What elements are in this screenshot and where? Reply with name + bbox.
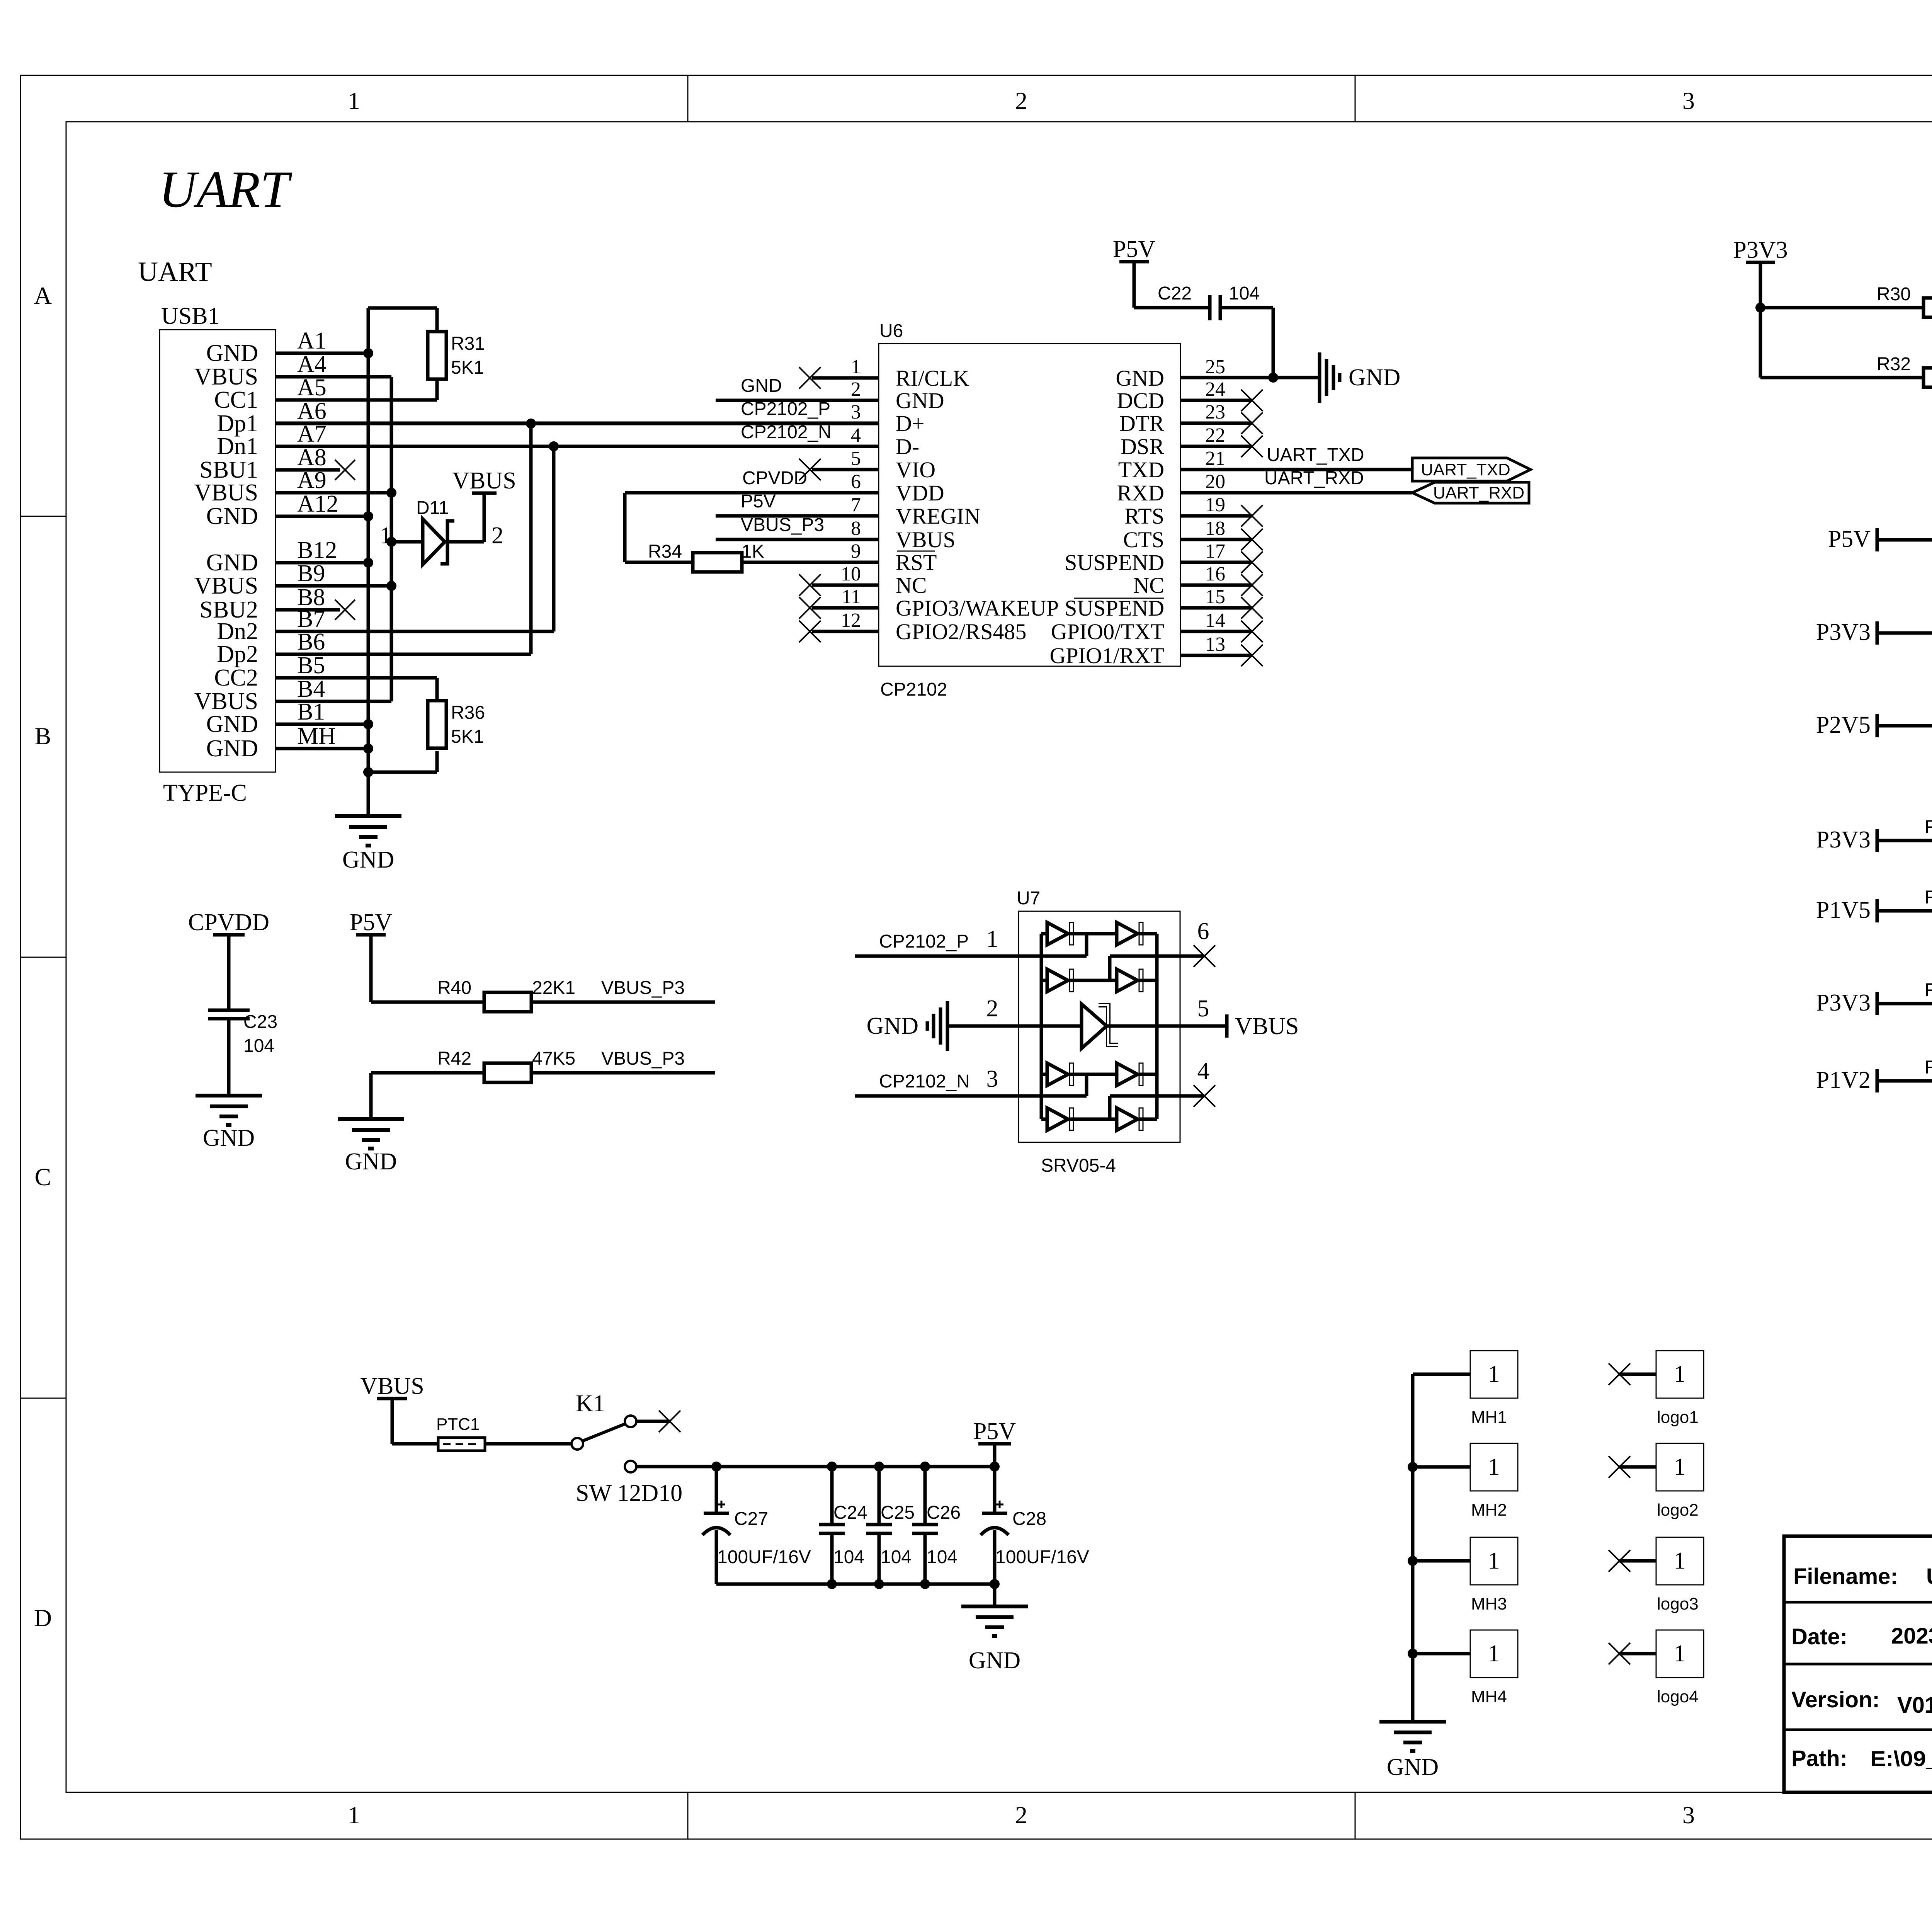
power terminal P5V (D12 row): [1828, 526, 1877, 552]
U6 pin 20 RXD: [1117, 471, 1225, 505]
USB1 pin A9 VBUS wire: [194, 467, 391, 506]
logo fiducial logo2: [1609, 1443, 1704, 1520]
svg-text:R34: R34: [648, 541, 682, 562]
U6 pin 23 DTR: [1119, 401, 1263, 436]
svg-text:100UF/16V: 100UF/16V: [717, 1547, 811, 1567]
IC U7 SRV05-4 body: [1017, 888, 1180, 1176]
resistor R37: [1877, 702, 1932, 735]
svg-text:NC: NC: [1133, 573, 1164, 598]
svg-text:GND: GND: [345, 1149, 397, 1175]
Dn1 junction dot: [549, 441, 559, 451]
capacitor C27: [702, 1467, 811, 1584]
svg-text:4: 4: [851, 424, 861, 446]
svg-text:UART: UART: [159, 161, 293, 218]
resistor R41: [1877, 980, 1932, 1013]
svg-text:1: 1: [1488, 1361, 1500, 1387]
svg-text:CP2102: CP2102: [880, 679, 947, 700]
U6 pin 2 GND: [851, 378, 944, 413]
svg-text:104: 104: [881, 1547, 912, 1567]
svg-text:1: 1: [1674, 1361, 1686, 1387]
capacitor C24: [819, 1467, 867, 1584]
svg-text:UART_RXD: UART_RXD: [1264, 468, 1364, 488]
svg-text:A4: A4: [297, 351, 327, 378]
svg-text:UART_RXD: UART_RXD: [1433, 483, 1524, 502]
USB1 pin A1 GND wire: [206, 328, 368, 366]
svg-text:GND: GND: [206, 340, 258, 366]
U6 pin 24 DCD: [1117, 378, 1263, 413]
svg-text:C: C: [35, 1163, 51, 1191]
power terminal P2V5 (D14 row): [1816, 712, 1877, 738]
svg-text:D11: D11: [416, 498, 449, 518]
ground symbol below R42: [338, 1073, 404, 1175]
svg-text:CC2: CC2: [214, 665, 258, 691]
svg-text:24: 24: [1205, 378, 1225, 400]
USB1 pin A6 Dp1 wire: [217, 398, 879, 437]
svg-text:GND: GND: [206, 735, 258, 762]
svg-text:U6: U6: [879, 321, 903, 341]
U7 pin 5 wire VBUS: [1107, 995, 1299, 1040]
svg-text:8: 8: [851, 517, 861, 539]
resistor R31: [428, 308, 485, 400]
svg-text:UART: UART: [138, 256, 212, 287]
resistor R39: [1877, 887, 1932, 921]
USB1 pin A7 Dn1 wire: [217, 421, 879, 459]
svg-text:Path:: Path:: [1791, 1746, 1847, 1771]
USB1 pin B8 SBU2 wire: [199, 584, 355, 623]
svg-text:P5V: P5V: [350, 909, 392, 936]
svg-text:A9: A9: [297, 467, 327, 493]
ground symbol below cap bank: [961, 1584, 1028, 1674]
svg-text:P3V3: P3V3: [1816, 827, 1871, 853]
svg-text:VBUS: VBUS: [194, 573, 258, 599]
svg-text:DTR: DTR: [1119, 411, 1164, 436]
zone row ticks: [20, 516, 1932, 1398]
IC U6 CP2102 body: [879, 321, 1180, 700]
U6 pin 5 VIO: [799, 448, 935, 482]
U6 pin 22 DSR: [1121, 424, 1263, 459]
power port P5V (cap bank): [973, 1418, 1016, 1467]
svg-text:GPIO0/TXT: GPIO0/TXT: [1051, 619, 1164, 644]
svg-text:UART_TXD: UART_TXD: [1421, 460, 1510, 479]
U6 pin 12 GPIO2/RS485: [799, 609, 1026, 644]
zone column ticks: [688, 75, 1932, 1839]
USB1 pin B7 Dn2 wire: [217, 606, 554, 645]
GND bus junction dots: [363, 348, 373, 777]
resistor R32: [1760, 354, 1932, 387]
svg-text:P3V3: P3V3: [1816, 619, 1871, 645]
power port VBUS (D11 cathode): [452, 468, 516, 542]
svg-text:3: 3: [1682, 87, 1695, 114]
svg-text:5K1: 5K1: [451, 357, 484, 378]
USB1 pin B9 VBUS wire: [194, 560, 391, 599]
svg-text:RI/CLK: RI/CLK: [896, 366, 969, 391]
USB1 pin A4 VBUS wire: [194, 351, 391, 390]
svg-text:SW 12D10: SW 12D10: [576, 1480, 682, 1506]
svg-text:CTS: CTS: [1123, 527, 1164, 552]
svg-text:GND: GND: [206, 503, 258, 529]
svg-text:VBUS: VBUS: [1235, 1013, 1299, 1040]
svg-text:R39: R39: [1925, 887, 1932, 908]
resistor R35: [1877, 609, 1932, 643]
svg-text:D-: D-: [896, 434, 919, 459]
svg-text:104: 104: [927, 1547, 957, 1567]
svg-text:logo4: logo4: [1657, 1687, 1699, 1706]
U7 internal right rail: [1155, 934, 1159, 1119]
U7 diode row C: [1041, 1063, 1157, 1086]
svg-text:GND: GND: [1116, 366, 1164, 391]
svg-text:CP2102_P: CP2102_P: [879, 931, 969, 952]
svg-text:CPVDD: CPVDD: [742, 468, 807, 488]
svg-text:1: 1: [1674, 1640, 1686, 1667]
svg-text:VBUS_P3: VBUS_P3: [601, 978, 685, 998]
svg-text:1: 1: [1674, 1548, 1686, 1574]
svg-text:P1V2: P1V2: [1816, 1067, 1871, 1093]
svg-text:V01: V01: [1897, 1693, 1932, 1718]
mounting hole MH4: [1413, 1630, 1518, 1706]
svg-text:GND: GND: [1349, 364, 1400, 391]
svg-text:P5V: P5V: [741, 491, 776, 512]
svg-text:GND: GND: [969, 1647, 1020, 1674]
U6 pin 18 CTS: [1123, 517, 1263, 552]
U6 pin 10 NC: [799, 563, 927, 598]
svg-text:VBUS: VBUS: [360, 1373, 424, 1399]
svg-text:13: 13: [1205, 633, 1225, 655]
svg-text:E:\09_my_project\PCB\05_ECP3\V: E:\09_my_project\PCB\05_ECP3\V02\ECP3_70…: [1870, 1746, 1932, 1771]
svg-text:C23: C23: [243, 1012, 277, 1032]
svg-text:B7: B7: [297, 606, 325, 632]
svg-text:1: 1: [851, 356, 861, 378]
ground symbol below MH bus: [1379, 1722, 1446, 1780]
svg-text:12: 12: [841, 609, 861, 631]
svg-text:R32: R32: [1877, 354, 1911, 374]
svg-text:SBU1: SBU1: [199, 457, 258, 483]
svg-text:GND: GND: [896, 388, 944, 413]
svg-text:5: 5: [1197, 995, 1209, 1022]
svg-text:21: 21: [1205, 448, 1225, 470]
power port CPVDD: [188, 909, 269, 1010]
fuse PTC1: [436, 1415, 485, 1451]
svg-text:16: 16: [1205, 563, 1225, 585]
U7 internal left rail: [1040, 934, 1043, 1119]
svg-text:2023/8/6: 2023/8/6: [1891, 1623, 1932, 1649]
svg-text:3: 3: [986, 1066, 998, 1092]
svg-text:GND: GND: [206, 550, 258, 576]
U6 pin 25 GND: [1116, 356, 1225, 391]
svg-text:MH3: MH3: [1471, 1594, 1507, 1613]
svg-text:C25: C25: [881, 1503, 915, 1523]
svg-text:VBUS: VBUS: [452, 468, 516, 494]
svg-text:GPIO3/WAKEUP: GPIO3/WAKEUP: [896, 596, 1059, 621]
USB1 pin B4 VBUS wire: [194, 676, 391, 715]
svg-text:6: 6: [1197, 918, 1209, 944]
svg-text:GND: GND: [203, 1125, 255, 1151]
svg-text:R41: R41: [1925, 980, 1932, 1001]
capacitor bus bottom rail: [716, 1579, 1000, 1589]
svg-text:20: 20: [1205, 471, 1225, 493]
USB1 pin A12 GND wire: [206, 491, 368, 529]
net D+ wire (CP2102_P): [276, 399, 879, 423]
resistor R33: [1877, 516, 1932, 550]
resistor R40: [371, 978, 715, 1012]
svg-text:Filename:: Filename:: [1793, 1564, 1898, 1589]
U6 pin 9 RST: [851, 540, 937, 575]
svg-text:2: 2: [851, 378, 861, 400]
U6 pin6 CPVDD wire: [625, 468, 879, 493]
svg-text:MH1: MH1: [1471, 1408, 1507, 1427]
ground symbol below C23: [196, 1096, 262, 1151]
capacitor C23: [208, 1010, 277, 1096]
svg-text:1: 1: [348, 87, 360, 114]
svg-text:R42: R42: [437, 1048, 471, 1069]
wire Dp1 to Dp2: [529, 424, 533, 654]
svg-text:P3V3: P3V3: [1733, 237, 1787, 263]
svg-text:A6: A6: [297, 398, 327, 424]
U6 pin 1 RI/CLK: [799, 356, 969, 391]
capacitor C26: [912, 1467, 961, 1584]
svg-text:23: 23: [1205, 401, 1225, 423]
logo fiducial logo3: [1609, 1537, 1704, 1613]
mounting hole MH3: [1413, 1537, 1518, 1613]
svg-text:1: 1: [380, 522, 392, 549]
svg-text:R36: R36: [451, 703, 485, 723]
net label UART_TXD (U6): [1180, 445, 1412, 470]
U7 diode row B: [1041, 969, 1157, 992]
svg-text:VBUS_P3: VBUS_P3: [741, 515, 824, 535]
resistor R43: [1877, 1057, 1932, 1091]
svg-text:R43: R43: [1925, 1057, 1932, 1078]
svg-text:1: 1: [1674, 1454, 1686, 1480]
svg-text:K1: K1: [576, 1390, 605, 1417]
resistor R38: [1877, 817, 1932, 850]
svg-text:R38: R38: [1925, 817, 1932, 837]
svg-text:5: 5: [851, 448, 861, 470]
U6 pin 4 D-: [851, 424, 919, 459]
svg-text:4: 4: [1197, 1058, 1209, 1084]
svg-text:2: 2: [986, 995, 998, 1022]
USB1 pin A5 CC1 wire: [214, 374, 437, 413]
logo fiducial logo4: [1609, 1630, 1704, 1706]
wire C22 to pin25: [1180, 308, 1318, 383]
capacitor bus junction dots (top): [711, 1462, 1000, 1472]
svg-text:UART_TXD: UART_TXD: [1267, 445, 1364, 465]
U6 pin7 P5V stub wire: [716, 491, 879, 516]
svg-text:P5V: P5V: [973, 1418, 1016, 1445]
svg-text:A5: A5: [297, 374, 327, 401]
svg-text:SUSPEND: SUSPEND: [1065, 596, 1164, 621]
U6 pin 13 GPIO1/RXT: [1050, 633, 1263, 668]
svg-text:C26: C26: [927, 1503, 961, 1523]
svg-text:P3V3: P3V3: [1816, 990, 1871, 1016]
svg-text:1K: 1K: [742, 541, 764, 562]
svg-text:VBUS_P3: VBUS_P3: [601, 1048, 685, 1069]
U7 pin 4 wire: [1110, 1058, 1215, 1119]
USB1 pin MH GND wire: [206, 723, 368, 762]
svg-text:DCD: DCD: [1117, 388, 1164, 413]
ground symbol at U6 pin25: [1320, 352, 1400, 403]
svg-text:GND: GND: [1387, 1754, 1439, 1780]
svg-text:GPIO2/RS485: GPIO2/RS485: [896, 619, 1026, 644]
mounting hole MH2: [1413, 1443, 1518, 1520]
svg-text:C27: C27: [734, 1509, 768, 1529]
svg-text:3: 3: [851, 401, 861, 423]
diode D11: [380, 498, 503, 565]
svg-text:D: D: [34, 1604, 52, 1632]
USB1 pin B1 GND wire: [206, 699, 368, 737]
svg-text:VIO: VIO: [896, 457, 935, 482]
svg-text:VBUS: VBUS: [194, 480, 258, 506]
svg-text:VBUS: VBUS: [194, 688, 258, 715]
svg-text:1: 1: [1488, 1454, 1500, 1480]
svg-text:Version:: Version:: [1791, 1687, 1880, 1712]
port flag UART_RXD (U6): [1412, 482, 1529, 503]
svg-text:logo2: logo2: [1657, 1501, 1699, 1520]
svg-text:RXD: RXD: [1117, 480, 1164, 505]
svg-text:B9: B9: [297, 560, 325, 587]
svg-text:U7: U7: [1017, 888, 1040, 909]
svg-text:GPIO1/RXT: GPIO1/RXT: [1050, 643, 1164, 668]
connector USB1 body: [160, 303, 276, 806]
svg-text:47K5: 47K5: [532, 1048, 575, 1069]
U6 pin 16 NC: [1133, 563, 1263, 598]
VBUS bus vertical wire: [386, 377, 396, 701]
svg-text:19: 19: [1205, 494, 1225, 516]
svg-text:P5V: P5V: [1828, 526, 1871, 552]
svg-text:VREGIN: VREGIN: [896, 504, 980, 529]
svg-text:GND: GND: [206, 711, 258, 737]
svg-text:A: A: [34, 282, 52, 309]
U7 pin 1 wire CP2102_P: [855, 926, 1087, 956]
svg-text:MH: MH: [297, 723, 336, 749]
svg-text:B6: B6: [297, 629, 325, 655]
svg-text:RST: RST: [896, 550, 937, 575]
resistor R30: [1760, 284, 1932, 317]
U7 pin 2 GND wire: [867, 995, 1082, 1051]
svg-text:SRV05-4: SRV05-4: [1041, 1155, 1116, 1176]
svg-text:R30: R30: [1877, 284, 1911, 305]
U6 pin2 GND stub wire: [716, 376, 879, 400]
svg-text:GND: GND: [342, 847, 394, 873]
svg-text:2: 2: [1015, 1801, 1027, 1829]
U6 pin 19 RTS: [1124, 494, 1263, 529]
svg-text:11: 11: [842, 586, 861, 608]
svg-text:6: 6: [851, 471, 861, 493]
svg-text:Date:: Date:: [1791, 1624, 1847, 1649]
svg-text:DSR: DSR: [1121, 434, 1164, 459]
U7 pin 3 wire CP2102_N: [855, 1066, 1087, 1096]
power terminal P3V3 (Q2 row): [1816, 990, 1877, 1016]
svg-text:Dp1: Dp1: [217, 410, 258, 437]
U6 pin 7 VREGIN: [851, 494, 980, 529]
capacitor C22: [1134, 283, 1273, 320]
svg-text:VBUS: VBUS: [896, 527, 956, 552]
port flag UART_TXD (U6): [1412, 458, 1531, 481]
title block texts: [1791, 1558, 1932, 1771]
svg-text:9: 9: [851, 540, 861, 562]
MH ground bus: [1408, 1374, 1418, 1722]
svg-text:UART.SchDoc: UART.SchDoc: [1926, 1564, 1932, 1589]
U6 pin8 VBUS_P3 stub wire: [716, 515, 879, 539]
capacitor C25: [866, 1467, 915, 1584]
svg-text:7: 7: [851, 494, 861, 516]
Dp1 junction dot: [526, 419, 536, 429]
mounting hole MH1: [1413, 1351, 1518, 1427]
U6 pin 15 SUSPEND: [1065, 586, 1263, 621]
power port VBUS (PTC1): [360, 1373, 438, 1444]
svg-text:A1: A1: [297, 328, 327, 354]
svg-text:B1: B1: [297, 699, 325, 725]
svg-text:CP2102_N: CP2102_N: [879, 1071, 970, 1092]
svg-text:C22: C22: [1158, 283, 1192, 304]
svg-text:C24: C24: [833, 1503, 867, 1523]
svg-text:104: 104: [243, 1036, 274, 1056]
capacitor C28: [981, 1467, 1089, 1584]
svg-text:P5V: P5V: [1113, 236, 1155, 262]
svg-text:RTS: RTS: [1124, 504, 1164, 529]
power terminal P3V3 (D13 row): [1816, 619, 1877, 645]
U6 pin 14 GPIO0/TXT: [1051, 609, 1263, 644]
wire Dn1 to Dn2: [552, 446, 556, 631]
svg-text:SUSPEND: SUSPEND: [1065, 550, 1164, 575]
svg-text:P1V5: P1V5: [1816, 897, 1871, 923]
svg-text:104: 104: [1229, 283, 1260, 304]
svg-text:A12: A12: [297, 491, 338, 517]
svg-text:P2V5: P2V5: [1816, 712, 1871, 738]
svg-text:Dn2: Dn2: [217, 618, 258, 645]
svg-text:B12: B12: [297, 537, 337, 563]
svg-text:TXD: TXD: [1118, 457, 1164, 482]
svg-text:MH4: MH4: [1471, 1687, 1507, 1706]
svg-text:22K1: 22K1: [532, 978, 575, 998]
resistor R42: [371, 1048, 715, 1082]
U6 pin 21 TXD: [1118, 448, 1225, 482]
logo fiducial logo1: [1609, 1351, 1704, 1427]
U6 pin 3 D+: [851, 401, 925, 436]
svg-text:A8: A8: [297, 444, 327, 471]
svg-text:VDD: VDD: [896, 480, 944, 505]
ground symbol below USB1: [335, 816, 401, 873]
svg-text:15: 15: [1205, 586, 1225, 608]
U7 zener diode: [1082, 1004, 1118, 1048]
svg-text:Dp2: Dp2: [217, 641, 258, 667]
svg-text:104: 104: [833, 1547, 864, 1567]
U7 pin 6 wire: [1110, 918, 1215, 980]
svg-text:10: 10: [841, 563, 861, 585]
title block frame: [1784, 1536, 1932, 1792]
USB1 pin A8 SBU1 wire: [199, 444, 355, 483]
svg-text:R40: R40: [437, 978, 471, 998]
U6 pin 8 VBUS: [851, 517, 956, 552]
net D- wire (CP2102_N): [276, 422, 879, 446]
svg-text:1: 1: [348, 1801, 360, 1829]
svg-text:MH2: MH2: [1471, 1501, 1507, 1520]
svg-text:100UF/16V: 100UF/16V: [995, 1547, 1089, 1567]
svg-text:PTC1: PTC1: [436, 1415, 480, 1434]
power terminal P3V3 (Q1 row): [1816, 827, 1877, 853]
svg-text:CP2102_P: CP2102_P: [741, 399, 830, 419]
resistor R34: [625, 493, 879, 572]
U6 pin 17 SUSPEND: [1065, 540, 1263, 575]
svg-text:5K1: 5K1: [451, 727, 484, 747]
svg-text:22: 22: [1205, 424, 1225, 446]
svg-text:B4: B4: [297, 676, 325, 702]
svg-text:VBUS: VBUS: [194, 364, 258, 390]
power port P3V3 (LED block): [1733, 237, 1787, 378]
svg-text:14: 14: [1205, 609, 1225, 631]
svg-text:CPVDD: CPVDD: [188, 909, 269, 936]
svg-text:R31: R31: [451, 334, 485, 354]
svg-text:17: 17: [1205, 540, 1225, 562]
switch K1: [485, 1390, 680, 1450]
